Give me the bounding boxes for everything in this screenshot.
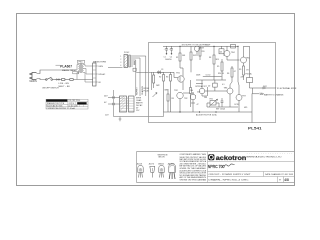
TR1 tails [180,68,183,90]
svg-text:100: 100 [190,90,193,92]
svg-text:DATE CHANGED PO NO 1969: DATE CHANGED PO NO 1969 [265,173,294,176]
svg-text:0R5: 0R5 [244,107,247,109]
bottom section divider [137,152,295,183]
svg-text:45V SUPPLY TO PL540 PREAMP: 45V SUPPLY TO PL540 PREAMP [182,43,211,46]
svg-text:MAINS: MAINS [30,80,38,83]
svg-text:3K3: 3K3 [216,59,219,61]
wire [53,79,62,81]
svg-text:+: + [169,48,170,50]
svg-text:2N3055: 2N3055 [158,163,164,165]
svg-text:C3: C3 [161,69,163,71]
extra mid components [213,83,218,87]
svg-text:NPRC 700: NPRC 700 [208,164,225,169]
R2 R3 bias [163,75,165,82]
svg-text:47: 47 [234,71,236,73]
svg-text:R3: R3 [166,77,168,79]
inline connector pair [56,79,57,80]
svg-text:220: 220 [202,51,205,53]
svg-text:2: 2 [127,101,128,103]
svg-text:R4: R4 [209,57,211,59]
svg-text:EARTH TO CHASSIS: EARTH TO CHASSIS [264,93,284,96]
svg-text:SUPPLY: SUPPLY [136,87,138,95]
svg-text:D2: D2 [208,85,210,87]
C3 input cap [159,71,174,75]
svg-text:BELOW: BELOW [159,157,166,159]
junction box [133,68,136,71]
svg-text:ackotron: ackotron [216,155,247,162]
R7 feedback resistor [190,88,192,94]
svg-text:ADJUST RV1 FOR 10mA: ADJUST RV1 FOR 10mA [196,113,217,116]
svg-text:R8: R8 [172,98,174,100]
svg-text:ON/OFF SWITCH: ON/OFF SWITCH [42,88,59,90]
connector PL2 bottom left [120,96,127,112]
wire TR5 collector [243,46,245,57]
parts table [46,99,88,110]
svg-text:560R: 560R [196,75,201,77]
svg-text:TO EXTERNAL SPKR: TO EXTERNAL SPKR [277,87,297,90]
svg-text:Nº: Nº [279,178,281,181]
svg-text:AC176: AC176 [149,162,154,165]
svg-text:R5: R5 [217,66,219,68]
svg-text:2: 2 [120,59,121,61]
svg-text:NEUT – BU: NEUT – BU [59,86,71,88]
bottom wire with earth [114,112,164,117]
TR6 [227,88,233,94]
wire live top [37,70,78,74]
svg-text:SHOWN ON THIS DIAGRAM: SHOWN ON THIS DIAGRAM [180,179,207,182]
connector PL3 bottom right [129,96,135,112]
thermal fuse [70,79,73,81]
wire from input entry down [151,72,153,90]
svg-text:R2: R2 [159,77,161,79]
interconnect wires to board [108,67,123,69]
wire to transformer [73,79,92,81]
svg-text:3: 3 [127,103,128,105]
svg-text:SET 10mA: SET 10mA [216,108,225,111]
main board outline PL541 [149,43,276,123]
bias diode box D1 [219,49,224,54]
svg-text:TR2: TR2 [184,98,187,100]
R12 input shunt [153,75,155,83]
svg-text:C5 50: C5 50 [206,75,211,77]
svg-text:1000/50: 1000/50 [165,59,172,61]
mains plug P1 [30,73,37,80]
svg-text:AC128: AC128 [137,162,142,165]
driver TR3 [199,88,205,94]
svg-text:R9: R9 [239,69,241,71]
svg-text:47: 47 [197,104,199,106]
wire neutral bottom [37,79,47,80]
misc labels inside board [156,51,249,111]
svg-text:OC35: OC35 [234,104,239,106]
input wire to board [136,71,163,73]
RV1 preset [210,101,216,106]
bottom rail [164,94,253,123]
small box under PLA667 [73,71,79,73]
R11 [199,48,201,56]
resistors mid right [213,46,245,112]
C1 C2 reservoir caps [165,46,173,54]
svg-text:0.1: 0.1 [222,84,225,86]
svg-text:C4: C4 [195,86,197,88]
TR5 [241,57,247,63]
transistor TR2 [177,92,183,98]
secondary connector strip [93,63,96,86]
TR4 [224,51,230,57]
secondary wires + labels [96,66,98,82]
stub labels [108,96,120,98]
svg-text:DRAWN– NPRC700_4 CIRC: DRAWN– NPRC700_4 CIRC [209,178,250,181]
svg-text:2M2: 2M2 [156,85,160,87]
svg-text:TR1 TR2 TR3 4: TR1 TR2 TR3 4 [68,100,80,102]
supply rail [163,45,238,47]
svg-text:. . . . . . . . . . . . . . .: . . . . . . . . . . . . . . . . . . . . [247,153,294,155]
svg-text:PL542: PL542 [124,52,129,54]
fuse link [62,79,65,81]
svg-text:4: 4 [127,106,128,108]
svg-text:PL541: PL541 [248,125,263,130]
svg-text:COMPONENTS MARKED * ARE: COMPONENTS MARKED * ARE [180,153,207,156]
svg-text:R14 1K: R14 1K [218,73,225,75]
svg-text:MAINS TRFM: MAINS TRFM [93,61,106,64]
svg-text:560: 560 [204,97,207,99]
TR1 [178,76,184,82]
svg-text:24V AC: 24V AC [98,73,106,76]
svg-text:LIVE – BN: LIVE – BN [59,83,70,85]
svg-text:+: + [195,95,196,97]
C6 [221,98,224,107]
fuse box on rail [231,45,236,49]
logo [208,154,214,160]
svg-text:RV1: RV1 [210,99,213,101]
svg-text:1K2: 1K2 [193,55,196,57]
svg-text:FS2 2A: FS2 2A [246,73,253,76]
svg-text:1: 1 [120,56,121,58]
svg-text:CURRENT ADJUSTED TO 10mA: CURRENT ADJUSTED TO 10mA [47,107,76,110]
notes text block [180,153,207,181]
svg-text:AD161/2: AD161/2 [168,162,175,165]
transistor package drawings [138,164,176,179]
wire [65,79,70,81]
fuse FS1 label box [78,60,85,63]
TR7 [236,95,242,101]
R1 [179,53,181,61]
svg-text:5: 5 [127,108,128,110]
transformer coils [77,64,93,82]
svg-text:CIRCUIT– POWER SUPPLY UNIT: CIRCUIT– POWER SUPPLY UNIT [209,174,252,176]
svg-text:BRENTA ELECTRONIC LTD: BRENTA ELECTRONIC LTD [247,155,283,158]
pin label column [136,98,143,113]
svg-text:240V: 240V [98,66,103,68]
svg-text:PLA667: PLA667 [60,64,72,68]
svg-text:4/8: 4/8 [284,178,289,182]
junction dots [179,46,238,113]
C4 electrolytic [190,94,196,100]
svg-text:4: 4 [120,65,121,67]
output line and speaker [244,46,277,95]
svg-text:3: 3 [120,62,121,64]
TR8 top [194,46,199,51]
title block [208,152,295,183]
bus routing [133,56,146,96]
connector PL1 top [124,55,133,68]
border frame [17,14,295,186]
svg-text:+: + [164,48,165,50]
switch S1 [46,77,53,80]
R10 divider [190,52,192,60]
svg-text:R1: R1 [176,57,178,59]
svg-text:R6: R6 [227,73,229,75]
pin numbers PL1 [120,56,121,67]
svg-text:PL540: PL540 [144,90,149,92]
svg-text:1: 1 [127,98,128,100]
